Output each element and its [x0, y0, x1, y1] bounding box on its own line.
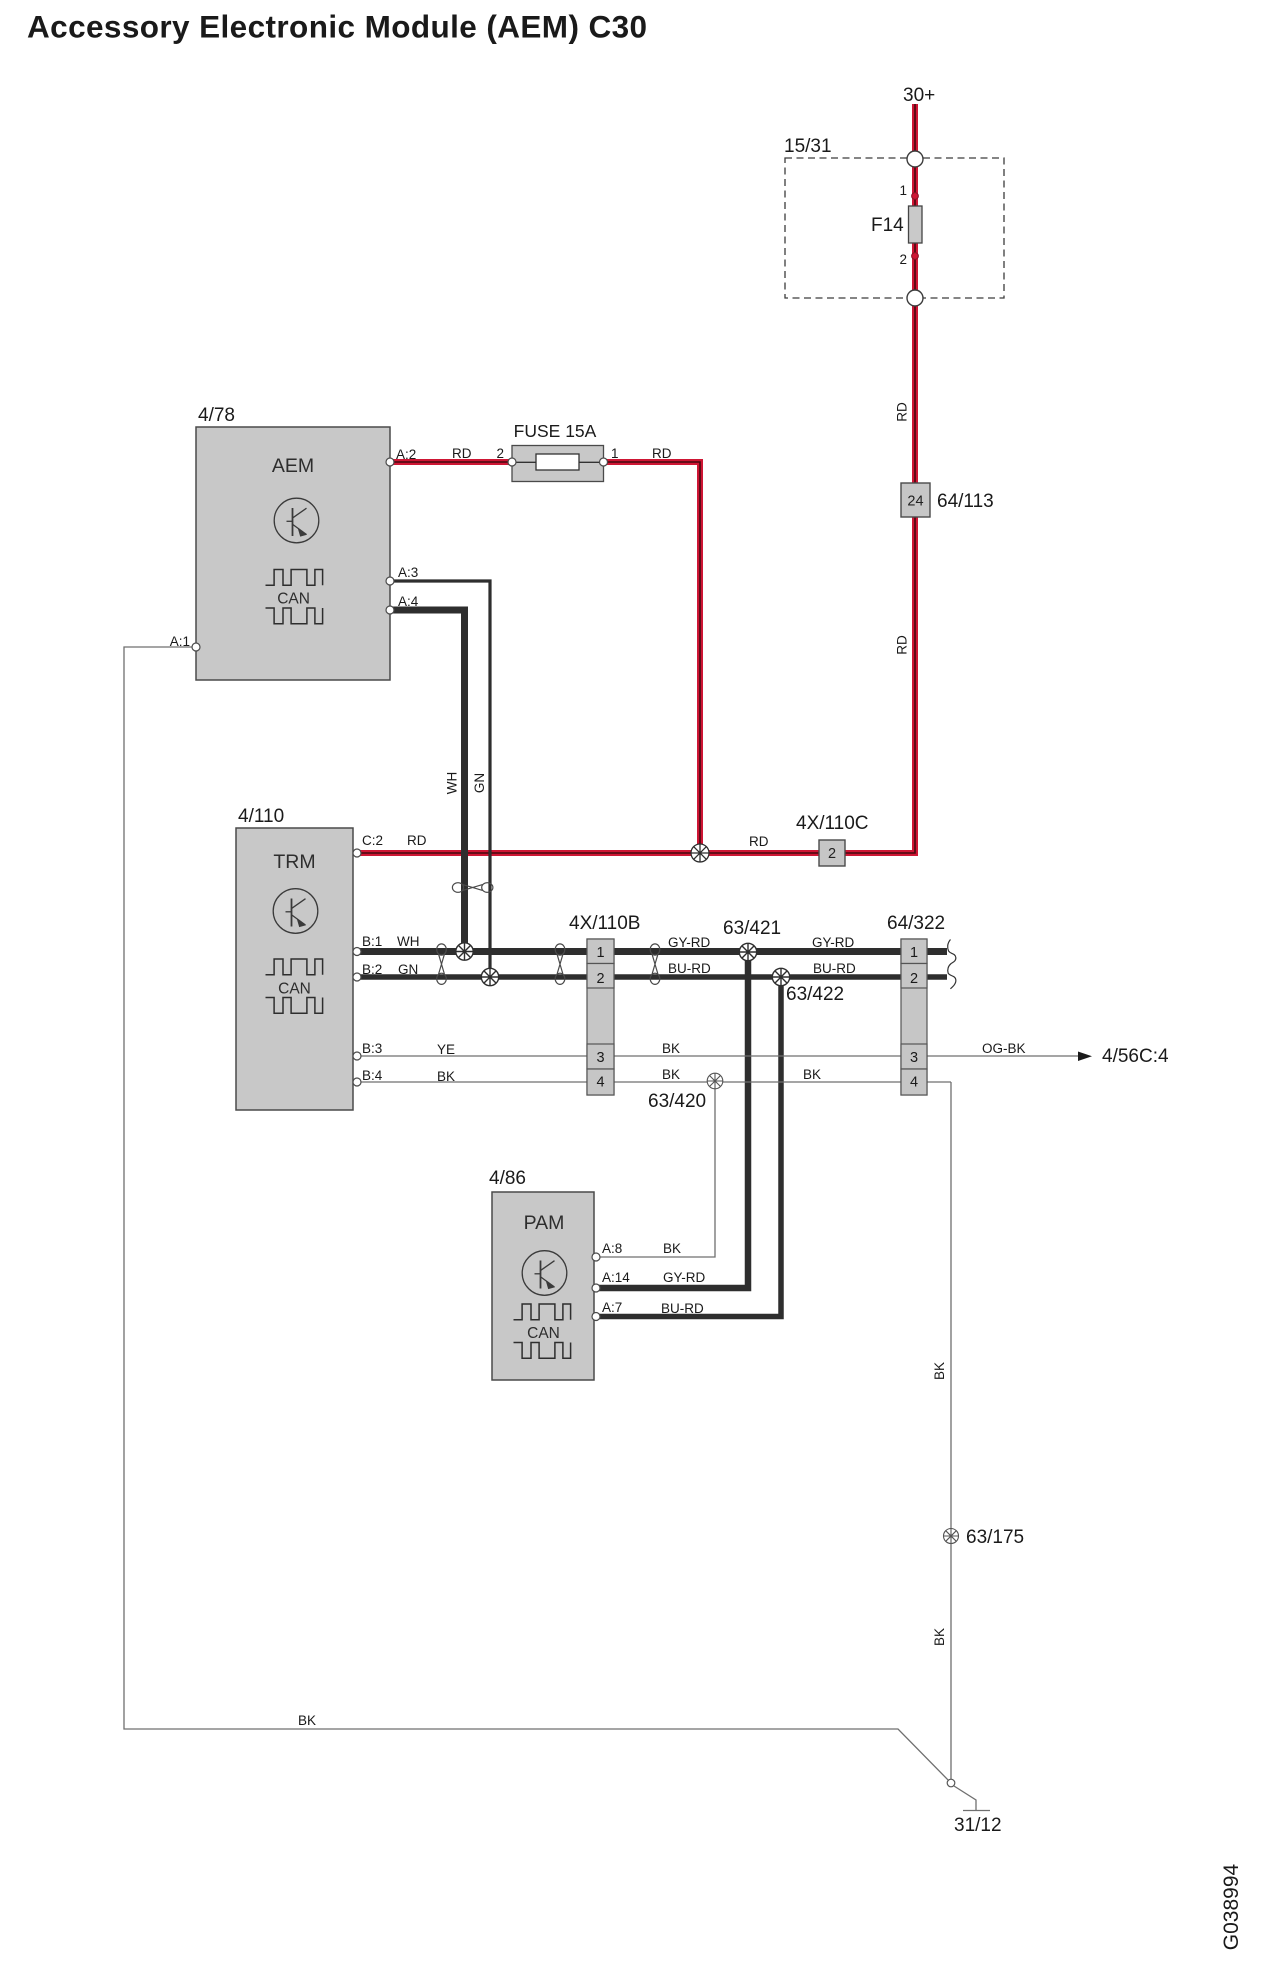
svg-text:BU-RD: BU-RD	[813, 961, 856, 976]
svg-text:A:4: A:4	[398, 594, 419, 609]
svg-text:WH: WH	[445, 772, 460, 795]
svg-text:64/322: 64/322	[887, 913, 945, 934]
svg-text:1: 1	[611, 446, 619, 461]
svg-text:RD: RD	[407, 833, 427, 848]
svg-text:Accessory Electronic Module (A: Accessory Electronic Module (AEM) C30	[27, 9, 647, 45]
svg-text:F14: F14	[871, 215, 904, 236]
svg-text:15/31: 15/31	[784, 136, 832, 157]
svg-text:BK: BK	[932, 1628, 947, 1646]
svg-text:A:7: A:7	[602, 1300, 622, 1315]
svg-text:63/420: 63/420	[648, 1091, 706, 1112]
svg-text:RD: RD	[895, 402, 910, 422]
svg-text:4: 4	[596, 1075, 604, 1091]
svg-text:BK: BK	[662, 1067, 680, 1082]
svg-text:31/12: 31/12	[954, 1815, 1002, 1836]
svg-text:4/110: 4/110	[238, 806, 284, 827]
svg-text:BU-RD: BU-RD	[661, 1301, 704, 1316]
svg-text:2: 2	[496, 446, 504, 461]
svg-text:1: 1	[899, 183, 907, 198]
svg-text:2: 2	[899, 252, 907, 267]
svg-text:3: 3	[596, 1050, 604, 1066]
svg-text:A:8: A:8	[602, 1241, 622, 1256]
svg-text:GN: GN	[398, 962, 418, 977]
svg-text:BK: BK	[437, 1069, 455, 1084]
svg-text:4: 4	[910, 1075, 918, 1091]
svg-text:BK: BK	[662, 1041, 680, 1056]
svg-text:OG-BK: OG-BK	[982, 1041, 1026, 1056]
svg-text:GN: GN	[472, 773, 487, 793]
svg-text:C:2: C:2	[362, 833, 383, 848]
svg-text:3: 3	[910, 1050, 918, 1066]
svg-text:BU-RD: BU-RD	[668, 961, 711, 976]
svg-text:2: 2	[910, 971, 918, 987]
svg-text:GY-RD: GY-RD	[812, 935, 855, 950]
svg-text:A:1: A:1	[170, 634, 190, 649]
svg-text:B:4: B:4	[362, 1068, 383, 1083]
svg-text:YE: YE	[437, 1042, 455, 1057]
svg-text:PAM: PAM	[524, 1212, 565, 1234]
svg-text:RD: RD	[652, 446, 672, 461]
svg-text:RD: RD	[452, 446, 472, 461]
svg-text:2: 2	[596, 971, 604, 987]
svg-text:CAN: CAN	[278, 981, 311, 998]
svg-text:63/421: 63/421	[723, 918, 781, 939]
svg-text:CAN: CAN	[277, 591, 310, 608]
svg-text:1: 1	[596, 945, 604, 961]
svg-text:RD: RD	[895, 635, 910, 655]
svg-text:FUSE 15A: FUSE 15A	[514, 421, 597, 441]
svg-text:63/175: 63/175	[966, 1527, 1024, 1548]
svg-text:4X/110C: 4X/110C	[796, 813, 869, 834]
svg-text:63/422: 63/422	[786, 984, 844, 1005]
svg-text:CAN: CAN	[527, 1325, 560, 1342]
svg-text:BK: BK	[298, 1713, 316, 1728]
svg-text:GY-RD: GY-RD	[668, 935, 711, 950]
svg-text:B:2: B:2	[362, 962, 382, 977]
svg-text:B:3: B:3	[362, 1041, 382, 1056]
svg-text:64/113: 64/113	[937, 491, 994, 512]
svg-text:4X/110B: 4X/110B	[569, 913, 640, 934]
svg-text:WH: WH	[397, 934, 420, 949]
svg-text:AEM: AEM	[272, 455, 314, 477]
svg-text:30+: 30+	[903, 85, 935, 106]
svg-text:BK: BK	[663, 1241, 681, 1256]
svg-text:4/86: 4/86	[489, 1168, 526, 1189]
svg-text:BK: BK	[932, 1362, 947, 1380]
svg-text:A:2: A:2	[396, 447, 416, 462]
svg-text:B:1: B:1	[362, 934, 382, 949]
svg-text:A:3: A:3	[398, 565, 418, 580]
svg-text:G038994: G038994	[1220, 1863, 1243, 1950]
svg-text:BK: BK	[803, 1067, 821, 1082]
svg-text:RD: RD	[749, 834, 769, 849]
svg-text:2: 2	[828, 846, 836, 862]
svg-text:A:14: A:14	[602, 1270, 630, 1285]
svg-text:4/78: 4/78	[198, 405, 235, 426]
svg-text:24: 24	[907, 494, 923, 510]
svg-text:TRM: TRM	[273, 851, 315, 873]
svg-text:4/56C:4: 4/56C:4	[1102, 1046, 1169, 1067]
svg-text:GY-RD: GY-RD	[663, 1270, 706, 1285]
svg-text:1: 1	[910, 945, 918, 961]
